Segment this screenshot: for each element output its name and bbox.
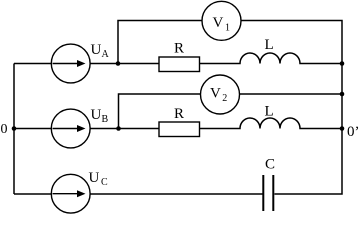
svg-text:R: R — [174, 106, 184, 122]
svg-text:U: U — [89, 170, 100, 186]
svg-text:C: C — [101, 177, 108, 188]
svg-text:U: U — [91, 107, 102, 123]
svg-text:B: B — [102, 114, 109, 125]
svg-text:U: U — [91, 42, 102, 58]
svg-text:0’: 0’ — [347, 124, 360, 140]
svg-text:0: 0 — [1, 122, 8, 137]
svg-text:R: R — [174, 41, 184, 57]
svg-text:L: L — [265, 37, 274, 53]
svg-text:V: V — [210, 86, 221, 102]
svg-text:C: C — [265, 157, 275, 173]
svg-text:2: 2 — [222, 93, 227, 104]
svg-text:A: A — [102, 49, 110, 60]
svg-text:V: V — [213, 15, 224, 31]
svg-text:L: L — [265, 104, 274, 120]
svg-text:1: 1 — [225, 23, 230, 34]
